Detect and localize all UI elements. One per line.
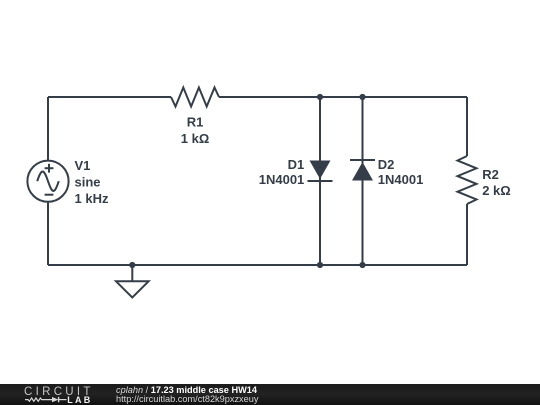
svg-text:2 kΩ: 2 kΩ xyxy=(482,183,511,198)
wire top-left horizontal xyxy=(48,96,171,98)
node dot top D1 xyxy=(317,94,323,100)
svg-text:LAB: LAB xyxy=(67,395,92,405)
wire diode D2 branch vertical xyxy=(362,97,364,265)
node dot bottom D1 xyxy=(317,262,323,268)
logo wire with resistor xyxy=(25,398,52,401)
node dot bottom D2 xyxy=(359,262,365,268)
svg-text:sine: sine xyxy=(75,175,101,190)
wire right vertical lower xyxy=(466,204,468,265)
voltage source V1 xyxy=(27,161,68,202)
footer bar xyxy=(0,384,540,405)
resistor R2 xyxy=(458,156,477,204)
node dot top D2 xyxy=(359,94,365,100)
svg-text:1N4001: 1N4001 xyxy=(378,172,424,187)
logo diode xyxy=(52,397,58,402)
svg-text:R2: R2 xyxy=(482,167,499,182)
wire right vertical upper xyxy=(466,97,468,156)
svg-text:1N4001: 1N4001 xyxy=(259,172,305,187)
circuitlab logo xyxy=(24,386,94,405)
wire left vertical lower xyxy=(47,202,49,265)
svg-text:1 kΩ: 1 kΩ xyxy=(181,131,210,146)
svg-text:1 kHz: 1 kHz xyxy=(75,191,109,206)
ground xyxy=(116,265,149,298)
svg-text:D2: D2 xyxy=(378,157,395,172)
wire bottom horizontal xyxy=(48,264,467,266)
wire top-right horizontal xyxy=(219,96,467,98)
diode D2 xyxy=(350,160,375,181)
wire left vertical upper xyxy=(47,97,49,161)
logo wire after diode xyxy=(59,399,67,401)
svg-text:D1: D1 xyxy=(288,157,305,172)
diode D1 xyxy=(308,161,333,182)
svg-text:http://circuitlab.com/ct82k9px: http://circuitlab.com/ct82k9pxzxeuy xyxy=(116,394,259,404)
svg-text:V1: V1 xyxy=(75,158,91,173)
svg-text:R1: R1 xyxy=(187,115,204,130)
wire diode D1 branch vertical xyxy=(319,97,321,265)
node dot ground xyxy=(129,262,135,268)
resistor R1 xyxy=(171,88,219,107)
